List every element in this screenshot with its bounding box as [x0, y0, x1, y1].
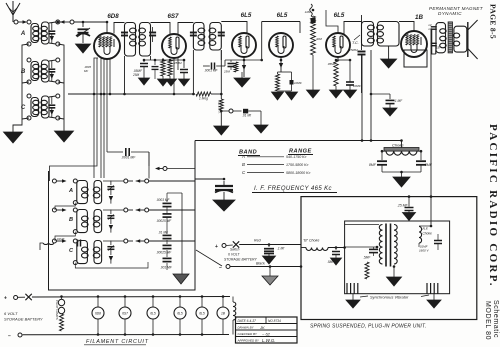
svg-text:.00025 MF: .00025 MF: [156, 219, 172, 223]
svg-text:.01 MF: .01 MF: [158, 231, 169, 235]
svg-text:.001 MF: .001 MF: [160, 266, 173, 270]
svg-text:6 VOLT: 6 VOLT: [4, 311, 18, 316]
svg-text:540-1750 Kc: 540-1750 Kc: [286, 155, 307, 159]
svg-text:DYNAMIC: DYNAMIC: [438, 11, 462, 16]
svg-text:5800-18000 Kc: 5800-18000 Kc: [286, 171, 311, 175]
svg-text:MODEL 80: MODEL 80: [484, 301, 491, 340]
svg-text:.1 MF: .1 MF: [394, 99, 403, 103]
svg-text:STORAGE BATTERY: STORAGE BATTERY: [4, 317, 43, 322]
svg-text:+: +: [4, 296, 7, 302]
svg-text:8MF: 8MF: [425, 163, 433, 167]
svg-text:"B" Choke: "B" Choke: [303, 239, 319, 243]
svg-text:1750-5800 Kc: 1750-5800 Kc: [286, 163, 309, 167]
svg-text:6D8: 6D8: [95, 312, 101, 316]
svg-text:.05MF: .05MF: [327, 62, 336, 66]
svg-text:−: −: [8, 334, 11, 340]
svg-text:A: A: [68, 188, 73, 194]
svg-text:10MF: 10MF: [353, 84, 361, 88]
svg-text:.0003 MF: .0003 MF: [156, 198, 171, 202]
svg-text:SPRING SUSPENDED, PLUG-IN POWE: SPRING SUSPENDED, PLUG-IN POWER UNIT.: [310, 324, 426, 330]
svg-text:1B: 1B: [415, 14, 423, 21]
svg-text:8MF: 8MF: [369, 163, 377, 167]
svg-text:6L5: 6L5: [177, 312, 183, 316]
svg-text:PAGE 8-5: PAGE 8-5: [489, 4, 498, 39]
svg-text:6S7: 6S7: [167, 13, 179, 20]
svg-text:STORAGE BATTERY: STORAGE BATTERY: [224, 258, 257, 262]
svg-text:.5MF: .5MF: [327, 260, 335, 264]
svg-text:.0001 MF: .0001 MF: [204, 69, 219, 73]
svg-text:Switch: Switch: [230, 248, 240, 252]
svg-text:.0001 MF: .0001 MF: [121, 156, 136, 160]
svg-text:6L5: 6L5: [277, 12, 288, 19]
svg-text:6L5: 6L5: [334, 12, 345, 19]
svg-text:−: −: [219, 265, 222, 271]
svg-text:Black: Black: [256, 262, 265, 266]
svg-text:Choke: Choke: [392, 143, 404, 148]
svg-text:.1MF: .1MF: [304, 10, 311, 14]
svg-text:B: B: [242, 162, 245, 167]
svg-text:B: B: [69, 217, 73, 223]
svg-text:A: A: [241, 154, 245, 159]
svg-text:Synchronous Vibrator: Synchronous Vibrator: [370, 295, 409, 300]
svg-text:NO 8734: NO 8734: [268, 319, 281, 323]
svg-text:PILOT LAMPS: PILOT LAMPS: [55, 300, 59, 320]
svg-text:FILAMENT CIRCUIT: FILAMENT CIRCUIT: [86, 339, 149, 345]
svg-text:L.W.G.: L.W.G.: [262, 338, 276, 343]
svg-text:CHECKED BY: CHECKED BY: [238, 332, 259, 336]
svg-text:.01MF: .01MF: [56, 237, 65, 241]
svg-text:MF: MF: [84, 69, 88, 73]
svg-text:DRAWN BY: DRAWN BY: [238, 326, 255, 330]
svg-text:1B: 1B: [436, 46, 440, 50]
svg-text:25MM: 25MM: [348, 48, 358, 52]
svg-text:40M: 40M: [316, 37, 322, 41]
svg-text:.5MF: .5MF: [363, 256, 371, 260]
svg-text:.01 Mf: .01 Mf: [242, 114, 252, 118]
svg-text:Red: Red: [254, 239, 262, 243]
svg-text:1600 V: 1600 V: [419, 249, 430, 253]
svg-text:A: A: [20, 31, 25, 37]
svg-text:APPROVED BY: APPROVED BY: [237, 339, 261, 343]
svg-text:DATE 6-4-37: DATE 6-4-37: [238, 319, 257, 323]
svg-text:~ 62: ~ 62: [262, 332, 271, 337]
svg-text:HI: HI: [429, 23, 432, 27]
svg-text:6L5: 6L5: [150, 312, 156, 316]
svg-text:Schematic: Schematic: [492, 300, 499, 338]
svg-text:R.F.: R.F.: [423, 227, 429, 231]
svg-text:JK: JK: [259, 325, 265, 330]
svg-text:.1 Mf: .1 Mf: [277, 247, 285, 251]
svg-text:PACIFIC RADIO CORP.: PACIFIC RADIO CORP.: [487, 124, 499, 288]
svg-text:6S7: 6S7: [122, 312, 128, 316]
svg-text:.00025 MF: .00025 MF: [156, 251, 172, 255]
svg-text:6D8: 6D8: [107, 13, 119, 20]
svg-text:RANGE: RANGE: [289, 149, 312, 155]
svg-text:T.C.: T.C.: [352, 41, 359, 45]
svg-text:1 Meg: 1 Meg: [199, 97, 208, 101]
svg-text:10MF: 10MF: [294, 81, 302, 85]
svg-text:6L5: 6L5: [199, 312, 205, 316]
svg-text:25M: 25M: [132, 73, 140, 77]
svg-text:25M: 25M: [223, 70, 230, 74]
svg-text:+: +: [215, 244, 218, 250]
svg-text:6L5: 6L5: [241, 12, 252, 19]
svg-text:I. F. FREQUENCY 465 Kc: I. F. FREQUENCY 465 Kc: [254, 186, 332, 192]
svg-text:6 VOLT: 6 VOLT: [228, 253, 240, 257]
svg-text:Choke: Choke: [423, 232, 432, 236]
